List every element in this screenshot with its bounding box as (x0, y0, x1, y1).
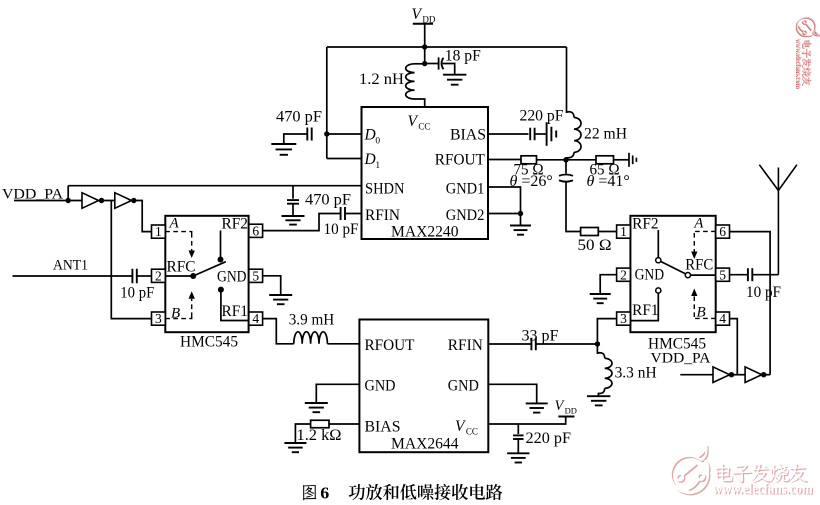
resistor 1.2 kOhm (311, 420, 329, 428)
caption 和 (383, 484, 399, 500)
pin 1 (left HMC545) (152, 224, 166, 239)
wire pin5 to ground (263, 276, 281, 295)
wire V_DD stem (424, 24, 426, 47)
dashed A path (165, 232, 191, 233)
svg-text:10 pF: 10 pF (324, 221, 359, 238)
wire pin4 to L (263, 319, 294, 344)
pin 5 (right HMC545) (716, 267, 730, 282)
ground (MAX2644 right) (526, 403, 548, 412)
junction buffer1 out (729, 372, 734, 377)
junction buffer2 out (761, 372, 766, 377)
pin 3 (right HMC545) (617, 311, 631, 326)
wire to ground (520, 214, 522, 226)
svg-text:6: 6 (252, 223, 259, 238)
junction V_DD/rail (422, 44, 427, 49)
svg-text:50 Ω: 50 Ω (578, 237, 612, 254)
svg-text:RFIN: RFIN (365, 207, 400, 224)
svg-text:1.2 kΩ: 1.2 kΩ (297, 427, 342, 444)
svg-text:DD: DD (565, 406, 577, 416)
svg-text:BIAS: BIAS (450, 127, 486, 144)
power symbol V_DD bar (bottom) (558, 416, 574, 418)
ground (pin2 right) (590, 294, 611, 303)
svg-text:1: 1 (620, 224, 627, 239)
buffer U2a (82, 193, 99, 209)
wire C18 to ground (443, 64, 455, 75)
svg-text:VDD_PA: VDD_PA (651, 350, 711, 366)
wire pin5 to C (730, 274, 748, 276)
wire RF2 to C (263, 214, 341, 231)
svg-text:θ =41°: θ =41° (587, 173, 630, 190)
inductor 3.9 mH (294, 332, 328, 344)
wire buffer1-2 (99, 200, 115, 202)
capacitor 470 pF (SHDN) (287, 200, 299, 204)
inductor 22 mH (567, 112, 575, 118)
wire to L1 (415, 63, 425, 65)
svg-text:HMC545: HMC545 (180, 334, 238, 351)
resistor 75 ohm (521, 156, 537, 164)
switch pivot RFC (190, 273, 196, 279)
ground (MAX2644 left) (305, 403, 328, 412)
inductor 1.2 nH (406, 64, 415, 99)
wire pin4 (B) to buffer (730, 319, 738, 375)
wire BIAS (488, 133, 529, 135)
svg-text:SHDN: SHDN (365, 181, 405, 198)
junction buffer2 out (131, 198, 136, 203)
wire VCC to VDD (488, 417, 565, 424)
resistor 65 ohm (596, 156, 614, 164)
svg-text:0: 0 (375, 137, 380, 147)
svg-text:18 pF: 18 pF (445, 48, 481, 65)
inductor 22 mH end (566, 152, 574, 158)
wire SHDN to C (292, 186, 294, 199)
ground (470 pF D0) (271, 144, 296, 155)
capacitor 10 pF (RFIN) (341, 207, 345, 220)
caption 电 (470, 484, 485, 500)
svg-text:GND: GND (635, 267, 665, 284)
watermark logo (672, 449, 709, 495)
svg-text:MAX2240: MAX2240 (391, 224, 459, 241)
caption 接 (435, 484, 451, 500)
wire 75 to junction (537, 159, 597, 161)
svg-text:A: A (693, 216, 704, 232)
IC U4 MAX2644 body (359, 320, 488, 453)
caption 路 (486, 484, 503, 500)
wire GND to ground (316, 384, 359, 402)
wire pin6 (A) to buffer out (730, 232, 771, 375)
wire C to antenna (752, 274, 778, 276)
ground (3.3 nH) (587, 396, 610, 405)
junction buffer1 out (99, 198, 104, 203)
pin 2 (right HMC545) (617, 267, 631, 282)
inductor 3.3 nH end (598, 388, 604, 395)
capacitor 10 pF (ANT1) (132, 269, 136, 284)
wire to VCC feed node (424, 47, 426, 64)
wire L to junction (565, 158, 567, 160)
svg-text:V: V (408, 113, 419, 130)
wire junction to L (596, 344, 598, 354)
wire to pin3 (B) (111, 201, 151, 319)
wire C to ground (284, 134, 308, 144)
wire D1 (327, 158, 362, 160)
pin 3 (left HMC545) (152, 311, 166, 326)
svg-text:RF2: RF2 (222, 216, 249, 233)
wire C to ground (292, 204, 294, 216)
wire D0 (327, 133, 362, 135)
switch blade (193, 262, 226, 276)
capacitor 220 pF (VCC) (513, 435, 524, 439)
wire pin2 to ground (600, 275, 616, 294)
wire L1 to VCC pin (415, 99, 425, 107)
svg-text:CC: CC (466, 427, 478, 437)
svg-text:220 pF: 220 pF (520, 108, 564, 125)
watermark 电子发烧友 电 (802, 40, 812, 49)
switch contact RF2 (218, 257, 224, 263)
svg-text:4: 4 (719, 311, 726, 326)
wire RFOUT (488, 159, 521, 161)
svg-text:V: V (455, 418, 466, 435)
junction VDD_PA (66, 198, 71, 203)
svg-text:GND: GND (217, 268, 247, 285)
ground rotated (65 ohm) (629, 153, 636, 167)
watermark 电子发烧友 子 (732, 465, 753, 484)
svg-text:RF2: RF2 (632, 216, 659, 233)
wire C to pin2 (137, 275, 152, 277)
svg-text:D: D (364, 127, 376, 144)
watermark 电子发烧友 电 (715, 463, 733, 482)
caption 图 (303, 485, 316, 500)
watermark 电子发烧友 子 (802, 48, 811, 58)
wire rail to L 22mH (566, 47, 568, 113)
junction D0 node (324, 131, 329, 136)
caption 收 (452, 484, 468, 500)
ground (pin5 left) (269, 295, 292, 304)
svg-text:3.3 nH: 3.3 nH (615, 365, 657, 382)
svg-text:6: 6 (320, 483, 329, 502)
svg-text:3: 3 (620, 311, 627, 326)
pin 2 (left HMC545) (152, 268, 166, 283)
svg-text:ANT1: ANT1 (53, 257, 88, 273)
wire 50 ohm to pin1 (598, 231, 616, 233)
switch contact (top) (656, 258, 661, 263)
watermark url (713, 482, 814, 499)
wire buffer1-2 (730, 374, 746, 376)
svg-text:220 pF: 220 pF (526, 430, 572, 447)
ground (1.2k) (284, 443, 306, 452)
switch pivot RFC (685, 273, 690, 278)
svg-text:RF1: RF1 (632, 302, 659, 319)
watermark 电子发烧友 烧 (802, 67, 812, 77)
wire GND post to RF1 (630, 293, 658, 321)
inductor 3.3 nH (605, 358, 612, 388)
dashed arrow B->RFC (691, 289, 697, 318)
wire BIAS (329, 423, 359, 425)
pin 1 (right HMC545) (617, 224, 631, 239)
caption 放 (366, 484, 382, 500)
capacitor 33 pF (531, 338, 535, 351)
wire up to SHDN rail (67, 186, 69, 201)
watermark 电子发烧友 友 (802, 76, 812, 86)
wire GND post to RF1 (221, 290, 249, 321)
svg-text:470 pF: 470 pF (305, 192, 351, 209)
ground rotated (BIAS) (547, 122, 557, 146)
watermark 电子发烧友 烧 (770, 463, 790, 483)
IC U5 HMC545 (right) body (630, 216, 715, 332)
wire RFIN (488, 343, 531, 345)
watermark 电子发烧友 友 (788, 463, 808, 483)
svg-text:GND2: GND2 (446, 207, 485, 224)
svg-text:1.2 nH: 1.2 nH (359, 71, 404, 88)
svg-text:RFC: RFC (685, 257, 713, 274)
wire to pin1 (A) (130, 201, 151, 232)
dashed B path (165, 317, 191, 319)
contact GND post (218, 287, 224, 293)
wire buffer2 out (762, 374, 770, 376)
wire RFC (165, 275, 193, 277)
wire pin3 to junction (597, 319, 616, 344)
svg-text:5: 5 (252, 268, 259, 283)
svg-text:GND1: GND1 (446, 181, 485, 198)
wire C to RFIN (345, 213, 362, 215)
contact GND post (656, 288, 661, 293)
svg-text:5: 5 (719, 267, 726, 282)
ground (MAX2240) (510, 226, 531, 235)
wire C to ground (517, 439, 519, 453)
svg-text:3: 3 (155, 311, 162, 326)
watermark logo (796, 18, 819, 37)
junction GND1/GND2 (518, 211, 523, 216)
pin 4 (right HMC545) (716, 311, 730, 326)
pin 6 (right HMC545) (716, 224, 730, 239)
svg-text:RF1: RF1 (222, 303, 249, 320)
dashed arrow A->RFC (189, 233, 195, 258)
wire 65 to ground (614, 159, 630, 161)
svg-text:GND: GND (365, 378, 396, 395)
svg-text:www.elecfans.com: www.elecfans.com (795, 38, 803, 88)
svg-text:10 pF: 10 pF (746, 284, 781, 301)
wire C to ground (535, 133, 547, 135)
svg-text:2: 2 (155, 268, 162, 283)
wire SHDN rail (68, 185, 361, 187)
wire R to ground (295, 424, 310, 443)
pin 6 (left HMC545) (249, 223, 263, 238)
junction RFIN node (595, 341, 600, 346)
buffer U6b (745, 367, 762, 383)
ground (18 pF) (443, 75, 466, 85)
svg-text:RFIN: RFIN (448, 337, 483, 354)
svg-text:A: A (169, 216, 180, 232)
dashed A path (694, 231, 715, 233)
junction VCC feed (422, 61, 427, 66)
wire VDD_PA (14, 200, 82, 202)
wire to C 18pF (425, 63, 439, 65)
buffer U6a (713, 367, 730, 383)
watermark 电子发烧友 发 (802, 58, 812, 68)
svg-text:10 pF: 10 pF (120, 285, 154, 302)
op-amp/IC U1 MAX2240 body (362, 107, 489, 239)
wire junction to cap (565, 160, 567, 174)
wire GND2 (488, 213, 521, 215)
ground (470 pF SHDN) (282, 216, 305, 225)
svg-text:22 mH: 22 mH (584, 126, 627, 143)
watermark (bottom right) (671, 447, 814, 498)
dashed arrow B->RFC (189, 291, 195, 317)
wire cap to 50 ohm (566, 182, 581, 232)
watermark url (794, 38, 803, 89)
wire VDD_PA (680, 374, 713, 376)
svg-text:V: V (412, 6, 423, 23)
caption 噪 (418, 484, 434, 500)
watermark (top right, rotated) (794, 17, 820, 89)
wire top rail (327, 46, 567, 48)
pin 5 (left HMC545) (249, 268, 263, 283)
svg-text:www.elecfans.com: www.elecfans.com (713, 482, 813, 498)
capacitor 10 pF (antenna) (748, 268, 752, 281)
wire contact to RF2 (220, 231, 222, 260)
svg-text:4: 4 (252, 311, 259, 326)
svg-text:RFC: RFC (167, 258, 196, 275)
ground (220 pF) (507, 453, 529, 462)
capacitor 470 pF (D0) (307, 128, 311, 141)
watermark 电子发烧友 发 (751, 463, 770, 483)
inductor 22 mH coil (574, 118, 581, 153)
wire contact to RF2 (657, 230, 659, 258)
svg-text:RFOUT: RFOUT (435, 152, 485, 169)
wire to C 220pF (517, 424, 519, 434)
svg-text:GND: GND (448, 378, 479, 395)
capacitor (series, RFOUT) (559, 175, 573, 182)
resistor 50 ohm (581, 228, 599, 236)
svg-text:470 pF: 470 pF (276, 109, 322, 126)
svg-text:CC: CC (418, 122, 430, 132)
junction RFOUT node (563, 157, 568, 162)
wire rail to D0/D1 (326, 47, 328, 159)
dashed arrow A->RFC (691, 233, 697, 259)
svg-text:3.9 mH: 3.9 mH (289, 312, 335, 329)
capacitor 18 pF (curved plate) (439, 57, 444, 69)
svg-text:1: 1 (375, 161, 380, 171)
svg-text:BIAS: BIAS (365, 419, 401, 436)
inductor 3.3 nH hook (597, 353, 604, 359)
antenna (759, 165, 797, 275)
wire GND1 (488, 187, 521, 214)
wire RFC to pin5 (691, 274, 716, 276)
svg-text:33 pF: 33 pF (522, 327, 559, 344)
switch blade (661, 261, 686, 274)
wire L to RFOUT (327, 343, 359, 345)
wire GND right (488, 384, 536, 403)
capacitor 220 pF (BIAS) (530, 128, 534, 141)
caption 低 (400, 484, 416, 500)
svg-text:6: 6 (719, 224, 726, 239)
caption 功 (349, 484, 365, 500)
pin 4 (left HMC545) (249, 311, 263, 326)
svg-text:D: D (364, 151, 376, 168)
wire ANT1 (13, 275, 133, 277)
wire C to junction (536, 343, 598, 345)
svg-text:1: 1 (155, 224, 162, 239)
IC U3 HMC545 (left) body (165, 216, 248, 332)
power symbol V_DD bar (413, 23, 433, 25)
svg-text:RFOUT: RFOUT (365, 337, 415, 354)
svg-text:2: 2 (620, 267, 627, 282)
svg-text:MAX2644: MAX2644 (391, 436, 459, 453)
buffer U2b (115, 193, 132, 209)
dashed B path (694, 317, 715, 318)
